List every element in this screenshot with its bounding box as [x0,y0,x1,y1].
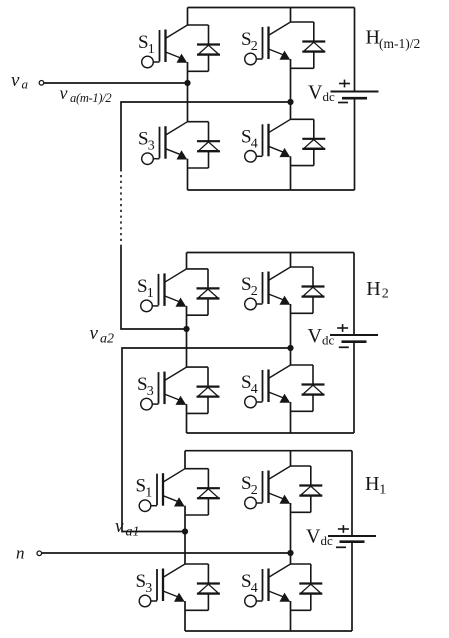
svg-text:1: 1 [147,286,154,301]
label S4 (H2) [241,372,258,397]
wire right leg upper (H1) [290,451,292,466]
svg-text:a1: a1 [126,525,140,540]
wire S2 emitter to node (H(m-1)/2) [290,59,292,102]
label H2 [366,278,388,302]
svg-text:(m-1)/2: (m-1)/2 [379,36,420,51]
wire n to H1 right leg [42,552,291,554]
wire S1 emitter to node (H(m-1)/2) [187,62,189,83]
label H1 [365,473,386,497]
transistor S2 (H2) [245,267,291,310]
label S2 (H1) [241,473,258,498]
diode across S3 (H(m-1)/2) [188,122,221,168]
transistor S1 (H2) [141,269,187,312]
label va1 [115,516,140,540]
node left leg midpoint (H2) [183,326,189,332]
wire S2 emitter to node (H1) [290,503,292,553]
label Vdc (H1) [306,526,333,549]
svg-text:1: 1 [148,42,155,57]
label S2 (H(m-1)/2) [241,29,258,54]
svg-text:2: 2 [251,39,258,54]
wire S3 emitter to rail (H2) [186,404,188,433]
transistor S3 (H2) [141,367,187,410]
label n [16,544,25,563]
wire va to left leg [44,82,188,84]
terminal n [37,551,42,556]
wire S4 emitter to rail (H2) [290,402,292,433]
svg-text:1: 1 [145,486,152,501]
svg-text:a2: a2 [100,332,114,347]
svg-text:dc: dc [322,333,335,348]
label S1 (H1) [136,476,153,501]
label Vdc (H2) [308,325,335,348]
wire S1 emitter to node (H1) [184,506,186,532]
label S4 (H1) [241,571,258,596]
minus sign (H2) [339,346,349,348]
svg-text:3: 3 [145,581,152,596]
svg-text:n: n [16,544,25,563]
wire DC bus upper (H(m-1)/2) [354,8,356,92]
svg-text:V: V [308,82,323,104]
diode across S3 (H2) [187,367,220,413]
battery Vdc (H(m-1)/2) [331,92,379,99]
transistor S3 (H1) [139,564,185,607]
label H(m-1)/2 [366,26,421,50]
wire DC bus upper (H2) [353,253,355,336]
wire S4 emitter to rail (H1) [290,601,292,631]
label S1 (H(m-1)/2) [138,32,155,57]
diode across S2 (H1) [291,466,323,512]
label va(m-1)/2 [60,83,112,105]
wire left leg upper (H2) [186,253,188,269]
svg-text:a: a [22,77,29,92]
wire left leg upper (H(m-1)/2) [187,8,189,26]
node left leg midpoint (H1) [182,528,188,534]
svg-text:a(m-1)/2: a(m-1)/2 [70,91,111,105]
node right leg midpoint (H1) [287,550,293,556]
wire H2 output to H1 node [122,348,291,532]
diode across S3 (H1) [185,564,220,610]
wire node to S4 collector (H(m-1)/2) [290,102,292,119]
wire DC bus lower (H1) [351,542,353,631]
wire top rail (H(m-1)/2) [188,7,355,9]
minus sign (H(m-1)/2) [338,102,348,104]
wire right leg upper (H2) [290,253,292,268]
wire chain to H2 node [121,246,187,329]
transistor S2 (H1) [245,466,291,509]
svg-text:2: 2 [382,287,389,302]
svg-text:V: V [308,325,323,347]
wire bottom rail (H2) [187,432,355,434]
svg-text:v: v [11,70,20,91]
wire node to S3 collector (H1) [184,532,186,565]
battery Vdc (H1) [328,536,376,542]
wire S2 emitter to node (H2) [290,304,292,348]
label Vdc (H(m-1)/2) [308,82,335,105]
svg-text:4: 4 [251,136,258,151]
wire left leg upper (H1) [184,451,186,469]
label S3 (H2) [137,374,154,399]
node right leg midpoint (H2) [287,345,293,351]
svg-text:H: H [366,26,380,48]
wire bottom rail (H(m-1)/2) [188,189,355,191]
wire node to S4 collector (H2) [290,348,292,365]
diode across S4 (H1) [291,564,323,610]
wire top rail (H1) [185,450,352,452]
svg-text:v: v [60,83,68,103]
svg-text:H: H [366,278,380,300]
wire DC bus lower (H2) [353,342,355,433]
label S3 (H(m-1)/2) [138,129,155,154]
label va [11,70,29,92]
minus sign (H1) [336,546,346,548]
wire S3 emitter to rail (H(m-1)/2) [187,159,189,190]
wire DC bus upper (H1) [351,451,353,536]
transistor S2 (H(m-1)/2) [245,22,291,65]
label va2 [90,323,115,347]
svg-text:1: 1 [379,483,386,498]
wire H(m-1)/2 output to chain [121,102,291,172]
svg-text:4: 4 [251,581,258,596]
wire dotted continuation [120,175,122,246]
diode across S2 (H2) [291,267,325,313]
svg-text:2: 2 [251,284,258,299]
wire right leg upper (H(m-1)/2) [290,8,292,23]
svg-text:3: 3 [147,384,154,399]
svg-text:H: H [365,473,379,495]
svg-text:v: v [115,516,124,537]
wire node to S3 collector (H2) [186,329,188,367]
svg-text:2: 2 [251,483,258,498]
label S3 (H1) [136,571,153,596]
diode across S2 (H(m-1)/2) [291,22,326,68]
plus sign (H1) [338,525,349,533]
diode across S1 (H(m-1)/2) [188,25,221,71]
wire S4 emitter to rail (H(m-1)/2) [290,156,292,190]
label S4 (H(m-1)/2) [241,126,258,151]
terminal va [39,81,44,86]
wire node to S3 collector (H(m-1)/2) [187,83,189,122]
wire DC bus lower (H(m-1)/2) [354,98,356,190]
transistor S1 (H(m-1)/2) [142,25,188,68]
svg-text:dc: dc [321,533,334,548]
diode across S4 (H2) [291,365,325,411]
wire S3 emitter to rail (H1) [184,601,186,631]
wire bottom rail (H1) [185,630,352,632]
svg-text:3: 3 [148,139,155,154]
label S2 (H2) [241,274,258,299]
plus sign (H2) [337,324,348,332]
diode across S1 (H2) [187,269,220,315]
svg-text:dc: dc [323,89,336,104]
svg-text:4: 4 [251,382,258,397]
transistor S1 (H1) [139,469,185,512]
battery Vdc (H2) [330,335,378,342]
wire top rail (H2) [187,252,355,254]
diode across S4 (H(m-1)/2) [291,119,326,165]
transistor S3 (H(m-1)/2) [142,122,188,165]
label S1 (H2) [137,276,154,301]
plus sign (H(m-1)/2) [339,80,350,88]
svg-text:V: V [306,526,321,548]
wire S1 emitter to node (H2) [186,306,188,329]
wire node to S4 collector (H1) [290,553,292,564]
node left leg midpoint (H(m-1)/2) [184,80,190,86]
svg-text:v: v [90,323,99,344]
diode across S1 (H1) [185,469,220,515]
transistor S4 (H2) [245,365,291,408]
transistor S4 (H1) [245,564,291,607]
node right leg midpoint (H(m-1)/2) [287,99,293,105]
transistor S4 (H(m-1)/2) [245,119,291,162]
